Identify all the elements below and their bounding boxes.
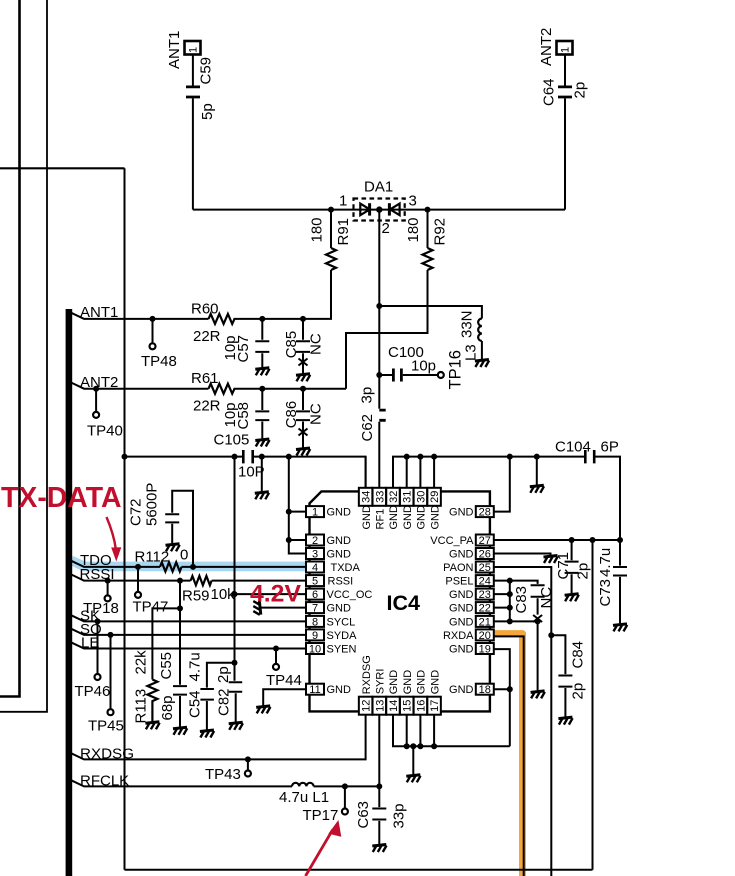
node junction pin18/riser: [507, 686, 513, 692]
svg-text:RXDSG: RXDSG: [80, 746, 134, 763]
svg-text:24: 24: [479, 576, 491, 588]
svg-text:R59: R59: [182, 588, 210, 605]
svg-text:GND: GND: [327, 507, 352, 519]
svg-text:1: 1: [560, 47, 572, 53]
wire PAON pin25 down to bottom: [494, 567, 552, 876]
wire rail right gnd stub: [536, 457, 538, 485]
ground C72: [166, 544, 180, 552]
svg-text:10: 10: [309, 644, 321, 656]
ground pin7 (rotated left): [260, 607, 307, 609]
capacitor C71 2p: [565, 540, 579, 593]
wire pin18 stub: [494, 688, 510, 690]
svg-text:2: 2: [382, 220, 390, 237]
svg-text:1: 1: [339, 193, 347, 210]
svg-text:TP45: TP45: [88, 718, 124, 735]
IC4 top pin numbers (rotated): [361, 491, 442, 503]
node junction TP43 tap: [245, 756, 251, 762]
svg-text:5600P: 5600P: [144, 483, 161, 526]
node junction TP47 tap: [135, 564, 141, 570]
diode pair DA1 dashed box: [354, 199, 405, 221]
svg-text:TP48: TP48: [141, 353, 177, 370]
svg-text:GND: GND: [449, 589, 474, 601]
svg-text:GND: GND: [429, 670, 441, 695]
svg-text:C63: C63: [355, 801, 372, 829]
node junction pin1 feed: [286, 509, 292, 515]
svg-text:GND: GND: [449, 603, 474, 615]
node junction pin28 riser: [507, 454, 513, 460]
svg-text:20: 20: [479, 630, 491, 642]
svg-text:ANT2: ANT2: [80, 374, 118, 391]
svg-text:2p: 2p: [572, 82, 589, 99]
svg-text:TP40: TP40: [87, 423, 123, 440]
wire pin31 stub: [406, 457, 408, 488]
svg-text:2p: 2p: [570, 683, 587, 700]
node junction C71 tap: [569, 537, 575, 543]
svg-text:8: 8: [312, 616, 318, 628]
svg-text:R112: R112: [135, 549, 170, 566]
svg-text:C86: C86: [283, 401, 300, 429]
annotation arrow TX-DATA to TDO (red): [107, 517, 116, 549]
capacitor C72 5600P: [165, 491, 193, 567]
ground R113: [145, 722, 159, 730]
wire RSSI net (pin5): [71, 574, 307, 580]
svg-text:C59: C59: [198, 57, 215, 85]
svg-text:27: 27: [479, 535, 491, 547]
svg-text:GND: GND: [416, 505, 428, 530]
svg-text:2: 2: [312, 535, 318, 547]
svg-text:22: 22: [479, 603, 491, 615]
svg-text:SYDA: SYDA: [327, 630, 358, 642]
svg-text:33: 33: [374, 491, 386, 503]
svg-text:GND: GND: [388, 670, 400, 695]
svg-text:13: 13: [374, 700, 386, 712]
wire RXDSG net (pin12): [71, 715, 366, 760]
test point TP47: [137, 567, 139, 592]
capacitor C62 3p (RF1 series): [378, 375, 380, 409]
capacitor C63 33p: [372, 786, 386, 844]
svg-text:180: 180: [309, 217, 326, 242]
svg-text:RXDSG: RXDSG: [361, 655, 373, 694]
node junction pin2 feed: [286, 537, 292, 543]
svg-text:TXDA: TXDA: [331, 562, 361, 574]
test point TP40: [95, 389, 97, 412]
svg-text:6P: 6P: [601, 439, 619, 456]
wire SK net (pin8): [71, 615, 307, 621]
svg-text:5p: 5p: [199, 103, 216, 120]
wire VCC_PA pin27 line: [494, 539, 620, 541]
svg-text:2p: 2p: [574, 563, 591, 580]
wire pin2 node down to C100 node: [378, 306, 380, 375]
svg-text:3p: 3p: [359, 387, 376, 404]
resistor R61 22R: [209, 384, 235, 394]
node junction pin2/L3 branch: [376, 303, 382, 309]
node junction C57 tap: [259, 316, 265, 322]
svg-text:PAON: PAON: [443, 562, 473, 574]
svg-text:18: 18: [479, 684, 491, 696]
svg-text:R92: R92: [432, 218, 449, 246]
svg-text:180: 180: [405, 217, 422, 242]
svg-text:32: 32: [388, 491, 400, 503]
svg-text:33N: 33N: [459, 310, 476, 338]
IC4 left pin boxes 1-11: [306, 506, 324, 695]
IC4 bottom pin numbers (rotated): [361, 700, 442, 712]
node junction R59/C55 feed: [177, 578, 183, 584]
node junction TP18 tap: [105, 578, 111, 584]
IC4 left pin numbers: [309, 507, 321, 697]
node junction frame riser tap: [590, 537, 596, 543]
svg-text:1: 1: [188, 47, 200, 53]
test point TP16: [438, 372, 444, 378]
ground C55: [173, 727, 187, 735]
node junction C54/C82: [232, 660, 238, 666]
svg-text:TP43: TP43: [205, 766, 241, 783]
svg-text:22R: 22R: [193, 328, 221, 345]
svg-text:GND: GND: [388, 505, 400, 530]
node junction C83 bottom / pin21: [535, 618, 541, 624]
wire ANT1 net from bus: [71, 313, 209, 319]
resistor R91 180 (vertical): [330, 210, 332, 319]
svg-text:31: 31: [402, 491, 414, 503]
svg-text:VCC_OC: VCC_OC: [327, 589, 373, 601]
svg-text:LE: LE: [81, 635, 99, 652]
node junction C85 tap: [300, 316, 306, 322]
svg-text:GND: GND: [327, 684, 352, 696]
wire bottom horizontal frame: [125, 869, 593, 871]
svg-text:12: 12: [361, 700, 373, 712]
svg-text:4.7u L1: 4.7u L1: [279, 789, 329, 806]
svg-text:C73: C73: [597, 579, 614, 607]
svg-text:GND: GND: [361, 505, 373, 530]
capacitor C85 NC: [296, 319, 310, 373]
ground L3: [475, 360, 489, 368]
svg-text:C57: C57: [235, 335, 252, 363]
svg-text:17: 17: [429, 700, 441, 712]
capacitor C82 2p: [229, 663, 243, 722]
wire pins 24-21 column: [509, 581, 511, 622]
capacitor C73 4.7u: [613, 540, 627, 623]
svg-text:16: 16: [415, 700, 427, 712]
frame horizontal line top: [0, 167, 125, 169]
resistor R92 180 (vertical): [346, 210, 428, 389]
wire C59 down to main line: [192, 98, 194, 209]
wire ANT2 net from bus: [71, 383, 209, 389]
svg-text:C83: C83: [513, 586, 530, 614]
svg-text:C71: C71: [555, 552, 572, 580]
IC4 right pin boxes 28-18: [476, 506, 494, 695]
svg-text:GND: GND: [327, 603, 352, 615]
highlight blue TX-DATA net (TDO wire): [71, 560, 307, 566]
IC4 top pin boxes 34-29: [359, 488, 441, 506]
svg-text:4.2V: 4.2V: [250, 581, 302, 608]
ground C63: [372, 845, 386, 853]
svg-text:TP46: TP46: [75, 683, 111, 700]
IC4 right pin numbers: [479, 507, 491, 697]
wire C64 down to main line: [564, 98, 566, 209]
node junction rail / frame line: [122, 454, 128, 460]
ground C85: [296, 374, 310, 382]
svg-text:L3: L3: [463, 344, 480, 361]
ground C54: [200, 730, 214, 738]
svg-text:C55: C55: [158, 652, 175, 680]
svg-text:15: 15: [402, 700, 414, 712]
capacitor C57 10p: [255, 319, 269, 367]
svg-text:34: 34: [361, 491, 373, 503]
node junction C84 tap: [548, 632, 554, 638]
svg-text:SYEN: SYEN: [327, 644, 357, 656]
node junction pins123 feed: [286, 454, 292, 460]
node junction C63 / pin13 riser: [376, 783, 382, 789]
svg-text:GND: GND: [449, 549, 474, 561]
svg-text:NC: NC: [308, 333, 325, 355]
capacitor C58 10p: [255, 389, 269, 439]
svg-text:1: 1: [312, 507, 318, 519]
capacitor C86 NC: [296, 389, 310, 448]
wire pin19 riser: [494, 649, 510, 746]
wire vertical x=124.5 (frame to bottom): [124, 168, 126, 870]
svg-text:TP47: TP47: [133, 599, 169, 616]
node junction rail gnd stub right: [534, 454, 540, 460]
svg-text:23: 23: [479, 589, 491, 601]
wire gnd stub at 261.8: [261, 457, 263, 492]
highlight orange RXDA net (pin 20 wire): [494, 634, 523, 876]
ground bottom pins: [412, 746, 414, 774]
svg-text:3: 3: [409, 193, 417, 210]
wire VCC_OC 4.2V feed from rail: [235, 457, 307, 663]
svg-text:GND: GND: [449, 644, 474, 656]
annotation arrow to TP17 (red): [306, 830, 333, 876]
node junction C55/R113: [177, 605, 183, 611]
svg-text:14: 14: [388, 700, 400, 712]
port ANT2 (antenna connector 2): [557, 41, 573, 55]
wire pin30 stub: [419, 457, 421, 488]
svg-text:C84: C84: [570, 641, 587, 669]
wire RXDA pin20 (black over orange): [494, 636, 524, 876]
wire pin15 stub: [406, 715, 408, 747]
wire C83 bottom to ground: [537, 621, 539, 690]
svg-text:4.7u: 4.7u: [597, 548, 614, 577]
ground C82: [229, 722, 243, 730]
ground C57: [255, 368, 269, 376]
IC4 bottom pin boxes 12-17: [359, 697, 441, 715]
test point TP18: [107, 581, 109, 596]
ground rail right: [530, 485, 544, 493]
svg-text:9: 9: [312, 630, 318, 642]
op-amp/IC U1: IC4 body outline: [310, 491, 490, 711]
svg-text:C85: C85: [283, 331, 300, 359]
svg-text:R91: R91: [335, 218, 352, 246]
wire SO net (pin9): [71, 629, 307, 635]
svg-text:GND: GND: [416, 670, 428, 695]
svg-text:RSSI: RSSI: [328, 576, 354, 588]
svg-text:11: 11: [309, 684, 320, 696]
svg-text:25: 25: [479, 562, 491, 574]
capacitor C55 68p: [173, 686, 187, 727]
test point TP45: [110, 635, 112, 709]
svg-text:19: 19: [479, 644, 491, 656]
ground pin11: [263, 689, 306, 705]
wire pin13 riser: [378, 715, 380, 787]
node junction pin6 tap: [232, 591, 238, 597]
svg-text:C104: C104: [555, 439, 591, 456]
svg-text:R61: R61: [191, 370, 219, 387]
svg-text:NC: NC: [538, 587, 555, 609]
ground C71: [565, 594, 579, 602]
wire ANT1 port to C59: [192, 55, 194, 86]
svg-text:C58: C58: [235, 402, 252, 430]
wire pin29 stub: [433, 457, 435, 488]
svg-text:2p: 2p: [215, 666, 232, 683]
svg-text:21: 21: [479, 616, 491, 628]
capacitor C59 5p: [186, 87, 200, 97]
svg-text:10p: 10p: [411, 358, 436, 375]
capacitor C54 4.7u: [200, 663, 234, 730]
node junction C86 tap: [300, 386, 306, 392]
node junction DA1 pin2: [376, 206, 382, 212]
svg-text:R113: R113: [133, 689, 150, 724]
resistor R112 0: [160, 562, 182, 571]
svg-text:30: 30: [415, 491, 427, 503]
svg-text:ANT1: ANT1: [166, 31, 183, 69]
wire right vertical frame x=592.5: [592, 540, 594, 870]
IC4 right pin names: [430, 507, 474, 697]
node junction DA1 pin1 / R91: [328, 207, 334, 213]
ground C58: [255, 439, 269, 447]
frame vertical line left 1: [0, 0, 20, 697]
wire pin17 stub: [433, 715, 435, 747]
svg-text:PSEL: PSEL: [445, 576, 473, 588]
svg-text:VCC_PA: VCC_PA: [430, 535, 474, 547]
wire RSSI pulldown feed: [152, 581, 180, 685]
bus bar (thick vertical): [66, 309, 73, 876]
svg-text:RF1: RF1: [375, 509, 387, 530]
node junction TP45 tap: [108, 632, 114, 638]
wire ground rail y=456.6 left segment: [125, 457, 366, 488]
svg-text:RFCLK: RFCLK: [80, 773, 129, 790]
wire main horizontal antenna line y=209.6: [193, 209, 565, 211]
svg-text:R60: R60: [191, 301, 219, 318]
svg-text:GND: GND: [449, 684, 474, 696]
svg-text:33p: 33p: [390, 803, 407, 828]
test point TP43: [247, 759, 249, 770]
wire PSEL pin24 to C83: [494, 581, 538, 584]
svg-text:4.7u: 4.7u: [187, 652, 204, 681]
wire pin34 stub up: [365, 457, 367, 488]
capacitor C100 10p (horizontal): [379, 374, 392, 376]
wire pin28 GND riser: [494, 457, 510, 512]
node junction C73/C104 leg: [617, 537, 623, 543]
node junction C58 tap: [259, 386, 265, 392]
diode DA1 right (anode pin3, cathode center): [390, 204, 400, 216]
svg-text:4: 4: [312, 562, 318, 574]
svg-text:3: 3: [312, 549, 318, 561]
svg-text:ANT2: ANT2: [538, 28, 555, 66]
node junction VCC feed x=234.5: [232, 454, 238, 460]
svg-text:NC: NC: [308, 403, 325, 425]
capacitor C104 6P (horizontal): [585, 450, 594, 463]
IC4 top pin names (rotated): [361, 505, 442, 530]
test point TP48: [152, 319, 154, 344]
node junction gnd stub x=261.8: [259, 454, 265, 460]
node junction C100 tap: [376, 372, 382, 378]
node junction TP44 tap: [273, 646, 279, 652]
ground C83: [531, 691, 545, 699]
wire LE net (pin10): [71, 642, 307, 648]
inductor L3 33N: [478, 319, 482, 342]
diode DA1 left (anode pin1, cathode center): [360, 204, 370, 216]
svg-text:C62: C62: [359, 414, 376, 442]
svg-text:C82: C82: [215, 688, 232, 716]
svg-text:SYCL: SYCL: [327, 616, 356, 628]
svg-text:29: 29: [429, 491, 441, 503]
svg-text:TP44: TP44: [266, 672, 302, 689]
wire feed to IC pins 1,2,3: [289, 457, 307, 554]
svg-text:GND: GND: [429, 505, 441, 530]
svg-text:C105: C105: [214, 432, 250, 449]
svg-text:GND: GND: [449, 616, 474, 628]
wire ANT2 port to C64: [564, 55, 566, 86]
wire RFCLK net (pin13): [71, 780, 379, 786]
svg-text:GND: GND: [327, 535, 352, 547]
node junction C72 tap: [190, 564, 196, 570]
svg-text:SYRI: SYRI: [375, 669, 387, 695]
svg-text:C72: C72: [128, 498, 145, 526]
svg-text:22R: 22R: [193, 398, 221, 415]
wire pin16 stub: [419, 715, 421, 747]
svg-text:10k: 10k: [211, 586, 236, 603]
capacitor C64 2p: [558, 87, 572, 97]
svg-text:C64: C64: [541, 78, 558, 106]
ground C84: [558, 717, 572, 725]
capacitor C84 2p: [551, 635, 572, 716]
ground rail stub: [255, 492, 269, 500]
svg-text:GND: GND: [327, 549, 352, 561]
capacitor C83 NC: [531, 585, 545, 614]
wire pin23 stub: [494, 593, 510, 595]
svg-text:TP16: TP16: [447, 350, 465, 389]
svg-text:GND: GND: [402, 670, 414, 695]
node junction TP17 tap: [342, 783, 348, 789]
IC4 left pin names: [327, 507, 373, 697]
wire TDO net (TXDA pin4): [71, 561, 307, 567]
node junction TP46 tap: [95, 618, 101, 624]
wire branch to L3: [379, 306, 482, 319]
svg-text:TX-DATA: TX-DATA: [1, 482, 122, 514]
node junction TP40 tap: [93, 386, 99, 392]
wire ground rail y=456.6 right segment: [393, 457, 620, 540]
frame vertical line left 2: [0, 0, 47, 712]
svg-text:28: 28: [479, 507, 491, 519]
svg-text:TP17: TP17: [303, 807, 339, 824]
svg-text:7: 7: [312, 603, 318, 615]
svg-text:GND: GND: [402, 505, 414, 530]
capacitor C105 10P (horizontal): [243, 450, 252, 463]
svg-text:68p: 68p: [159, 695, 176, 720]
test point TP44: [275, 649, 277, 665]
wire pin21 line to C83 bottom: [494, 620, 538, 622]
node junction DA1 pin3 / R92: [425, 207, 431, 213]
test point TP46: [97, 621, 99, 674]
ground C73: [613, 624, 627, 632]
IC4 bottom pin names (rotated): [361, 655, 442, 694]
svg-text:ANT1: ANT1: [80, 304, 118, 321]
svg-text:5: 5: [312, 576, 318, 588]
svg-text:10P: 10P: [238, 464, 265, 481]
resistor R60 22R: [209, 314, 235, 324]
ground pin26: [494, 554, 551, 556]
svg-text:RXDA: RXDA: [443, 630, 474, 642]
svg-text:26: 26: [479, 549, 491, 561]
wire pin22 stub: [494, 607, 510, 609]
